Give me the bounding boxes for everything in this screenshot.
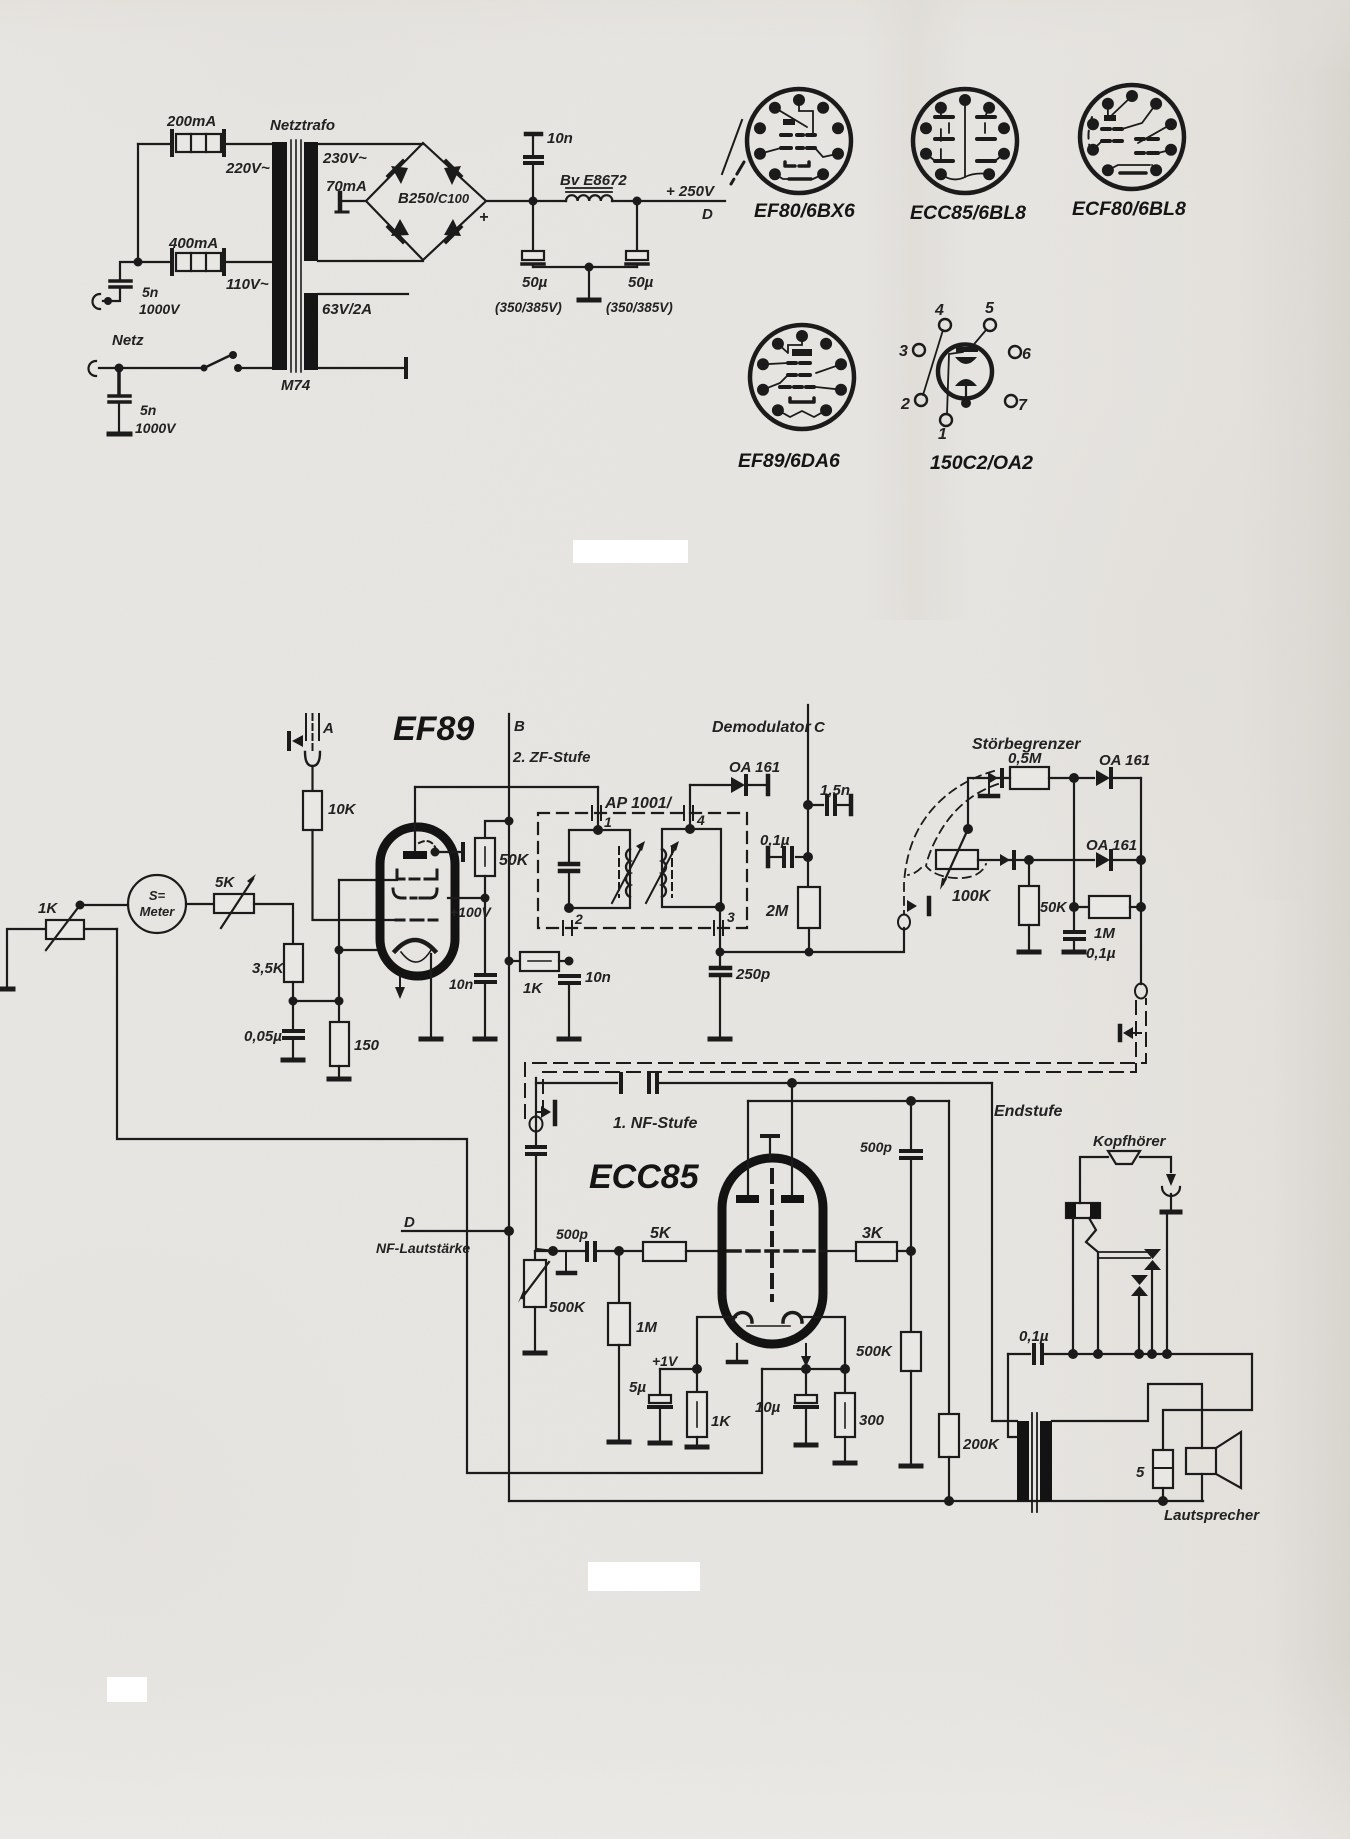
node jack right [1093, 1349, 1103, 1359]
wire contact2 down [1138, 1294, 1140, 1354]
EF89 anode lead [414, 787, 416, 851]
wire left cathode out [697, 1317, 736, 1369]
core dashed tank2 [671, 847, 673, 897]
svg-text:50µ: 50µ [628, 274, 654, 291]
svg-text:5K: 5K [650, 1225, 672, 1242]
connector bar near cable [927, 898, 932, 914]
resistor 1K (cathode NF) [696, 1369, 698, 1392]
node D on B+ rail [504, 1226, 514, 1236]
svg-text:1. NF-Stufe: 1. NF-Stufe [613, 1115, 698, 1132]
svg-text:1000V: 1000V [135, 420, 177, 436]
ECC85 left grid ground [736, 1344, 738, 1360]
resistor 3K [820, 1250, 856, 1252]
svg-text:0,1µ: 0,1µ [1019, 1328, 1049, 1345]
shield dashed curve 2 [926, 784, 998, 878]
wire 110V primary with junction [138, 261, 272, 263]
svg-text:500p: 500p [860, 1139, 892, 1155]
node pin 4 [685, 824, 695, 834]
ground bar 300 [835, 1461, 855, 1466]
svg-text:5µ: 5µ [629, 1379, 646, 1396]
node diode2 right [1136, 855, 1146, 865]
potentiometer 100K [936, 829, 978, 890]
node ground mid [585, 263, 594, 272]
svg-text:EF89: EF89 [393, 710, 474, 748]
coil tank2 [662, 849, 666, 897]
bottom rail [509, 1500, 1203, 1502]
wire contact1 down [1151, 1268, 1153, 1354]
capacitor C 5n/1000V upper [110, 281, 131, 287]
capacitor 50u electrolytic 2 [626, 201, 648, 267]
svg-text:+ 250V: + 250V [666, 183, 716, 200]
trimmer arrow tank2 [646, 848, 675, 903]
node 0,5M right [1069, 773, 1079, 783]
bridge diode D4 bottom-right [444, 219, 461, 236]
output transformer core [1032, 1413, 1037, 1512]
svg-text:1000V: 1000V [139, 301, 181, 317]
switch S mains [201, 351, 273, 372]
wire socket right contact zigzag down [1086, 1218, 1098, 1354]
wire grid1 into tube [339, 879, 397, 881]
node 300 [840, 1364, 850, 1374]
connector arrow near cable [907, 900, 917, 912]
wire anode to AP1001 pin1 [415, 786, 598, 788]
terminal bar after OA161 [766, 776, 771, 794]
svg-text:10K: 10K [328, 801, 357, 818]
svg-text:Netz: Netz [112, 332, 144, 349]
stray dash near EF80 socket [731, 162, 744, 184]
connector arrow on right cable [1123, 1027, 1133, 1039]
svg-text:0,05µ: 0,05µ [244, 1028, 282, 1045]
wire left vertical from 200mA line down to 400mA junction [137, 144, 139, 262]
svg-text:7: 7 [1018, 397, 1028, 414]
ground bar 500K grid2 [901, 1464, 921, 1469]
line C vertical [807, 705, 809, 887]
svg-text:0,1µ: 0,1µ [1086, 945, 1116, 962]
node second 50u junction [633, 197, 642, 206]
EF89 shield lead and bar [437, 851, 461, 853]
antenna A symbol [305, 714, 320, 791]
shield bus dashed outer [525, 999, 1146, 1118]
node B 50K [505, 817, 514, 826]
svg-text:ECC85/6BL8: ECC85/6BL8 [910, 202, 1026, 224]
svg-text:Netztrafo: Netztrafo [270, 117, 335, 134]
ground bar 500K volume [525, 1351, 545, 1356]
node on jack wire [104, 297, 112, 305]
wire S-meter to 5K [186, 903, 214, 905]
svg-text:Bv E8672: Bv E8672 [560, 172, 627, 189]
wire volume node to 500p [535, 1250, 584, 1252]
chassis hang 0,5M [988, 781, 990, 794]
svg-text:110V~: 110V~ [226, 276, 269, 293]
capacitor 500p (grid) [587, 1243, 595, 1260]
svg-text:1M: 1M [636, 1319, 657, 1336]
feedthrough marks pin3 [714, 921, 723, 935]
node g2/+100V [481, 894, 490, 903]
wire right vertical to cable [1140, 778, 1142, 984]
svg-text:M74: M74 [281, 377, 311, 394]
capacitor tank1 [560, 864, 578, 871]
EF89 heater arc [401, 950, 431, 962]
svg-text:3: 3 [727, 909, 735, 925]
feedthrough marks pin2 [563, 921, 572, 935]
svg-text:Lautsprecher: Lautsprecher [1164, 1507, 1260, 1524]
svg-text:5n: 5n [140, 402, 156, 418]
node jack left [1068, 1349, 1078, 1359]
node pin 2 [564, 903, 574, 913]
resistor 5K [643, 1242, 686, 1261]
svg-text:3,5K: 3,5K [252, 960, 285, 977]
node pin 1 [593, 825, 603, 835]
connector arrow 100K right [1000, 854, 1010, 866]
contact pair link double line [1098, 1252, 1150, 1258]
switch contact 1 [1144, 1249, 1161, 1270]
wire heater top 6.3V [318, 293, 408, 295]
svg-text:+: + [479, 209, 488, 226]
wire pin4 to diode OA161 [690, 784, 730, 786]
capacitor 50u electrolytic 1 [522, 201, 544, 267]
wire link 3.5K node to 150 node [293, 1000, 339, 1002]
ground bar 250p [710, 1037, 730, 1042]
svg-text:10n: 10n [585, 969, 611, 986]
svg-text:EF80/6BX6: EF80/6BX6 [754, 200, 855, 222]
wire plug left to jack [1080, 1157, 1108, 1203]
wire minus terminal to bridge [342, 200, 366, 202]
node B 1K [505, 957, 514, 966]
wire bridge + output to D [486, 200, 725, 202]
svg-text:50K: 50K [499, 852, 530, 869]
node 1M grid [614, 1246, 624, 1256]
fuse Si2 400mA [172, 250, 224, 274]
capacitor 0,05u [284, 1031, 303, 1038]
transformer secondary 6.3V winding bar [304, 293, 318, 370]
node plug ground [1162, 1349, 1172, 1359]
svg-text:OA 161: OA 161 [1086, 837, 1137, 854]
output transformer secondary bar [1040, 1421, 1052, 1501]
ECC85 top terminal bar [762, 1134, 778, 1138]
wire left anode to 200K [748, 1100, 949, 1102]
whiteout patch 3 [107, 1677, 147, 1702]
output transformer primary bar [1017, 1421, 1029, 1501]
EF89 anode bar [403, 851, 427, 859]
grid chassis bar at volume [565, 1253, 567, 1271]
node Netz jack [115, 364, 124, 373]
node contact1 [1147, 1349, 1157, 1359]
svg-text:220V~: 220V~ [225, 160, 270, 177]
svg-text:10µ: 10µ [755, 1399, 781, 1416]
wire 5K to tube grid [686, 1250, 725, 1252]
wire speaker bottom to rail [1201, 1474, 1203, 1501]
svg-text:0,1µ: 0,1µ [760, 832, 790, 849]
pin connect lines [923, 330, 986, 414]
terminal bar left AVC [0, 987, 13, 992]
wire long link AVC loop [117, 929, 762, 1473]
connector arrow 0,5M [988, 772, 998, 784]
meter S-Meter [128, 875, 186, 933]
ECC85 anode bar right [781, 1195, 804, 1203]
tube socket ECC85/6BL8 [913, 89, 1017, 193]
node wiper 100K [963, 824, 973, 834]
wire jack chain to 5ohm [1163, 1354, 1252, 1450]
svg-text:C: C [814, 719, 826, 736]
ECC85 anode lead left [747, 1101, 749, 1195]
resistor 5 ohm [1153, 1450, 1173, 1488]
wire 1K right to long link [84, 928, 117, 930]
potentiometer 5K [214, 874, 256, 928]
svg-text:Endstufe: Endstufe [994, 1103, 1063, 1120]
ECC85 cathode hook right [783, 1313, 802, 1323]
connector arrow NF [536, 1111, 540, 1113]
loudspeaker box [1186, 1448, 1216, 1474]
jack ground [1170, 1194, 1172, 1210]
cable end sleeve (right) [1135, 984, 1147, 999]
svg-text:1: 1 [938, 426, 947, 443]
capacitor series NF [527, 1147, 545, 1154]
ground bar 1K NF [687, 1445, 707, 1450]
arrow down plug [1166, 1174, 1176, 1186]
svg-text:200mA: 200mA [166, 113, 216, 130]
svg-text:10n: 10n [547, 130, 573, 147]
transformer secondary 230V winding bar [304, 142, 318, 261]
svg-text:63V/2A: 63V/2A [322, 301, 372, 318]
wire plug right to ground jack [1140, 1157, 1171, 1172]
headphone socket block [1066, 1203, 1100, 1218]
shield bus dashed inner [543, 999, 1136, 1114]
switch contact 2 [1131, 1275, 1148, 1296]
capacitor 0,1u (output) [1008, 1353, 1030, 1355]
resistor 3,5K [284, 944, 303, 982]
connector bar 0,5M [1000, 770, 1004, 786]
diode OA161 (1) [1096, 770, 1110, 786]
terminal bar 0,1u demod [766, 848, 771, 866]
svg-text:OA 161: OA 161 [1099, 752, 1150, 769]
core dashed tank1 [618, 847, 620, 897]
wire 220V primary top [138, 143, 272, 145]
wire wiper to S-meter [80, 904, 128, 906]
jack arc [1162, 1187, 1180, 1196]
cable end sleeve (demod out) [898, 915, 910, 930]
wire cap to jack [103, 288, 120, 301]
tube socket ECF80/6BL8 [1080, 85, 1184, 189]
capacitor 10u electrolytic [805, 1369, 807, 1395]
capacitor 250p [711, 968, 730, 975]
capacitor 10n (right) [560, 976, 579, 983]
svg-text:ECC85: ECC85 [589, 1158, 700, 1196]
wire right cathode bus [762, 1368, 845, 1370]
pin numbers [899, 300, 1031, 443]
diode OA161 (2) [1096, 852, 1110, 868]
ECC85 heater line [747, 1325, 790, 1327]
node junction 200/400 [134, 258, 143, 267]
capacitor C 5n/1000V lower [109, 368, 130, 402]
wire +1V node [660, 1368, 697, 1370]
wire from junction to input cap C 5n [120, 262, 138, 280]
svg-text:ECF80/6BL8: ECF80/6BL8 [1072, 198, 1186, 220]
internal anode lead and tip dot [965, 386, 967, 402]
wire cap to volume node [536, 1155, 553, 1251]
svg-text:2M: 2M [765, 903, 789, 920]
wire secondary bottom to bridge [318, 260, 423, 262]
node cathode junction [335, 946, 344, 955]
svg-text:+1V: +1V [652, 1353, 679, 1369]
bridge diode D3 bottom-left [391, 219, 409, 236]
wire joining 50u bottoms [533, 266, 637, 268]
node pin 3 [715, 902, 725, 912]
wire demod output [720, 928, 904, 952]
stray pen mark top right [722, 120, 742, 174]
EF89 grid3 row [396, 919, 437, 922]
node 1M right [1136, 902, 1146, 912]
svg-text:500K: 500K [549, 1299, 586, 1316]
svg-text:EF89/6DA6: EF89/6DA6 [738, 450, 840, 472]
IF tank 1 loop [569, 830, 630, 908]
node 10u [801, 1364, 811, 1374]
resistor 1K (cathode IF) [509, 952, 569, 971]
resistor 200K [939, 1414, 959, 1457]
svg-text:250p: 250p [735, 966, 770, 983]
svg-text:70mA: 70mA [326, 178, 367, 195]
wire plug ground down [1166, 1215, 1168, 1354]
svg-text:(350/385V): (350/385V) [606, 300, 673, 315]
resistor 50K (screen) [475, 838, 495, 876]
svg-text:1K: 1K [38, 900, 58, 917]
capacitor 10n (screen) [476, 975, 495, 982]
node 1K/10n junction [565, 957, 574, 966]
transformer core laminations [291, 140, 301, 372]
svg-text:100K: 100K [952, 888, 992, 905]
ground bar 10n right [559, 1037, 579, 1042]
AP1001 shielding box dashed [538, 813, 747, 928]
ground bar 1M grid leak [609, 1440, 629, 1445]
svg-text:D: D [404, 1214, 415, 1231]
wire socket left contact down [1072, 1218, 1074, 1354]
EF89 internal shield dashed arc [419, 841, 436, 849]
node volume top [548, 1246, 558, 1256]
EF89 cathode down arrow [399, 976, 401, 988]
ground bar EF89 heater [421, 1037, 441, 1042]
minus sign [336, 211, 348, 214]
pin circles around [913, 319, 1021, 426]
ECC85 anode bar left [736, 1195, 759, 1203]
wire cathode to vertical [339, 949, 384, 951]
node C 0,1u [803, 852, 813, 862]
whiteout patch 2 [588, 1562, 700, 1591]
svg-text:1,5n: 1,5n [820, 782, 850, 799]
capacitor coupling NF bus [621, 1074, 657, 1092]
resistor 500K (grid2) [910, 1251, 912, 1332]
wire 10K to grid3 [313, 830, 398, 920]
capacitor 0,1u (demod) [796, 856, 808, 858]
svg-text:5: 5 [985, 300, 995, 317]
svg-text:1K: 1K [711, 1413, 731, 1430]
wire Netz line to switch [99, 367, 204, 369]
cable end sleeve (NF input) [535, 1078, 537, 1145]
wire 2M bottom to demod out [808, 928, 810, 952]
svg-text:150C2/OA2: 150C2/OA2 [930, 452, 1033, 474]
whiteout patch 1 [573, 540, 688, 563]
svg-text:50K: 50K [1040, 900, 1068, 916]
capacitor 10n (psu) [525, 134, 542, 201]
trimmer arrow tank1 [612, 848, 641, 903]
internal cathode cup [955, 357, 977, 364]
EF89 grid1 row [397, 870, 437, 879]
ground bar 0,1u limiter [1064, 950, 1084, 955]
svg-text:Demodulator: Demodulator [712, 719, 811, 736]
svg-text:+100V: +100V [450, 904, 493, 920]
ground bar 5u [650, 1441, 670, 1446]
ground psu [588, 267, 590, 298]
coil tank1 [626, 849, 630, 897]
svg-text:Kopfhörer: Kopfhörer [1093, 1133, 1167, 1150]
ground bar 150 [329, 1077, 349, 1082]
wire secondary top to bridge [318, 143, 423, 145]
resistor 150 [338, 1001, 340, 1022]
wire 200K drop [948, 1101, 950, 1414]
loudspeaker horn [1216, 1432, 1241, 1488]
wire left terminal to 1K pot [7, 929, 46, 989]
svg-text:4: 4 [934, 302, 944, 319]
node 200K rail [944, 1496, 954, 1506]
wire 50K down through g2 node [484, 876, 486, 973]
terminal bar heater [404, 359, 408, 377]
wire NF line horizontal [536, 1082, 992, 1084]
svg-text:0,5M: 0,5M [1008, 750, 1042, 767]
jack input upper (half circle) [93, 294, 100, 309]
wire to diode 2 [1029, 859, 1094, 861]
svg-text:(350/385V): (350/385V) [495, 300, 562, 315]
svg-text:5n: 5n [142, 284, 158, 300]
vertical 0,5M node down [1073, 778, 1075, 907]
svg-text:B: B [514, 718, 525, 735]
node speaker rail [1158, 1496, 1168, 1506]
ECC85 center divider dashed [770, 1170, 774, 1300]
node pin3/250p [716, 948, 725, 957]
IF tank 2 loop [662, 829, 721, 907]
ground bar 0,05u [283, 1058, 303, 1063]
node contact2 [1134, 1349, 1144, 1359]
resistor 300 [844, 1369, 846, 1393]
tube EF89 envelope [380, 827, 455, 976]
node 100K/50K [1024, 855, 1034, 865]
feedthrough marks pin4 [684, 806, 693, 820]
capacitor 1,5n [808, 804, 823, 806]
node cathode 1K [692, 1364, 702, 1374]
svg-text:5K: 5K [215, 874, 235, 891]
svg-text:10n: 10n [449, 976, 473, 992]
svg-text:NF-Lautstärke: NF-Lautstärke [376, 1240, 470, 1256]
svg-text:500p: 500p [556, 1226, 588, 1242]
line B vertical [508, 714, 510, 1501]
ground bar 10u [796, 1443, 816, 1448]
terminal bar minus input [338, 193, 343, 209]
shield dashed curve 1 [904, 771, 994, 914]
wire 100K right [978, 859, 1029, 861]
svg-text:AP 1001/: AP 1001/ [604, 795, 673, 812]
svg-text:5: 5 [1136, 1464, 1145, 1481]
wire D volume line [402, 1230, 509, 1232]
node 500p top [906, 1096, 916, 1106]
svg-text:1M: 1M [1094, 925, 1115, 942]
internal anode dome [955, 379, 977, 386]
svg-text:S=: S= [149, 888, 166, 903]
wire right cathode arrow down [805, 1344, 807, 1369]
ECC85 anode lead right [791, 1083, 793, 1195]
svg-text:400mA: 400mA [168, 235, 218, 252]
node 2M out [805, 948, 814, 957]
connector bar 100K right [1012, 852, 1016, 868]
capacitor 5u electrolytic [659, 1369, 661, 1395]
potentiometer 1K [44, 905, 84, 953]
wire secondary to speaker [1052, 1384, 1202, 1448]
